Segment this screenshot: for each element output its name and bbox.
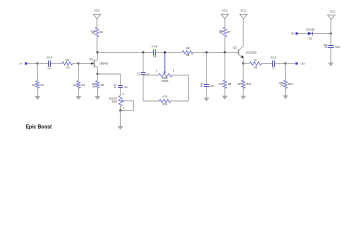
ground (C9) <box>204 98 210 102</box>
wire In to node A <box>28 63 38 65</box>
wire pot bottom to ground <box>119 111 121 127</box>
node pot-bottom junction <box>119 109 121 111</box>
svg-text:4.7: 4.7 <box>114 85 118 87</box>
resistor R10 (emitter load) <box>238 80 252 88</box>
wire node J to R9 <box>243 63 249 65</box>
svg-text:3: 3 <box>173 70 175 72</box>
svg-text:10k: 10k <box>186 46 191 50</box>
svg-text:47: 47 <box>200 84 203 86</box>
svg-text:Q2: Q2 <box>233 45 237 49</box>
svg-text:R11: R11 <box>163 102 168 106</box>
wire node D to C4 <box>98 51 155 53</box>
wire node A down to R1 <box>37 64 39 81</box>
svg-text:9V: 9V <box>291 32 294 36</box>
svg-text:5%: 5% <box>220 33 223 35</box>
node B junction <box>77 62 79 64</box>
capacitor C10 <box>323 45 340 49</box>
svg-text:R8: R8 <box>228 82 232 86</box>
svg-text:uF: uF <box>138 74 141 76</box>
wire node K to Out port <box>286 63 296 65</box>
wire R6 to Q2 base <box>193 51 239 53</box>
svg-text:C8: C8 <box>146 72 150 76</box>
wire node K down to R12 <box>285 64 287 81</box>
wire R10 to ground <box>242 88 244 96</box>
capacitor C1 <box>46 56 52 70</box>
wire loop bottom left segment <box>143 100 159 102</box>
svg-text:uF: uF <box>325 47 328 49</box>
svg-text:C9: C9 <box>210 84 214 88</box>
resistor R7 <box>219 27 231 37</box>
svg-text:8.2k: 8.2k <box>219 84 224 86</box>
svg-text:47uF: 47uF <box>271 56 277 60</box>
svg-text:4.7k: 4.7k <box>162 95 168 99</box>
svg-text:R12: R12 <box>288 82 293 86</box>
wire C8 down left loop side <box>142 75 144 101</box>
wire R8 to ground <box>224 88 226 96</box>
ground (R5) <box>95 96 101 100</box>
wire R9 to C7 <box>261 63 272 65</box>
power VCC (Q2 collector) <box>240 8 247 18</box>
wire pot wiper loop <box>123 100 133 102</box>
wire VCC to R7 <box>224 19 226 28</box>
wire pot MMR left lead <box>143 74 158 76</box>
capacitor C9 <box>200 84 214 88</box>
potentiometer MMR C500K <box>156 52 175 83</box>
svg-text:4.7nF: 4.7nF <box>151 45 158 49</box>
svg-text:nF: nF <box>200 86 203 88</box>
resistor R11 <box>159 95 170 106</box>
node F junction (gain network top) <box>142 51 144 53</box>
wire node E down to R5 <box>97 74 99 81</box>
wire loop bottom right segment <box>171 100 189 102</box>
node H junction <box>205 51 207 53</box>
svg-text:5%: 5% <box>92 33 95 35</box>
svg-text:VCC: VCC <box>94 8 100 12</box>
port Out <box>295 62 305 66</box>
svg-text:Out: Out <box>301 62 306 66</box>
resistor R4 <box>91 27 104 37</box>
svg-text:C500K: C500K <box>161 81 169 83</box>
resistor R2 <box>62 58 73 69</box>
svg-text:VCC: VCC <box>240 8 246 12</box>
svg-text:BOOST: BOOST <box>109 98 118 100</box>
svg-text:1N4148: 1N4148 <box>306 29 315 31</box>
diode D1 1N4148 <box>306 29 315 40</box>
resistor R12 (output pulldown) <box>279 80 294 88</box>
capacitor C7 <box>271 56 277 70</box>
resistor R8 <box>219 80 232 88</box>
svg-text:1k: 1k <box>254 58 257 62</box>
svg-text:3: 3 <box>122 94 124 96</box>
svg-text:100: 100 <box>323 45 328 47</box>
node L junction (VCC rail) <box>330 32 332 34</box>
transistor Q1 2N5457 JFET <box>89 52 109 74</box>
wire 9V to D1 <box>299 33 308 35</box>
svg-text:1: 1 <box>123 108 125 110</box>
svg-text:5%: 5% <box>92 86 95 88</box>
svg-text:VCC: VCC <box>330 10 336 14</box>
node J junction (Q2 emitter) <box>242 62 244 64</box>
wire R4 to drain node D <box>96 37 98 52</box>
svg-text:500K: 500K <box>112 101 118 103</box>
wire R12 to ground <box>285 88 287 95</box>
svg-text:4.7: 4.7 <box>137 72 141 74</box>
svg-text:R3: R3 <box>82 83 86 87</box>
wire R2 to node B <box>73 63 79 65</box>
svg-text:Epic Boost: Epic Boost <box>26 125 52 131</box>
ground (R8) <box>222 96 228 100</box>
wire D1 to node L <box>313 33 331 35</box>
wire node A to C1 <box>38 63 48 65</box>
wire C9 to ground <box>206 87 208 98</box>
wire C7 to node K <box>275 63 285 65</box>
svg-text:R4: R4 <box>100 30 104 34</box>
svg-text:R7: R7 <box>227 30 231 34</box>
svg-text:VCC: VCC <box>222 8 228 12</box>
port 9V <box>291 32 298 36</box>
svg-text:560: 560 <box>238 84 243 86</box>
power VCC (above R4) <box>93 8 100 18</box>
wire C1 to R2 <box>51 63 62 65</box>
capacitor C2 <box>114 85 129 89</box>
resistor R1 <box>32 81 44 89</box>
ground (R1) <box>35 96 41 100</box>
power VCC (above R7) <box>221 8 228 18</box>
node I junction (Q2 base node) <box>224 51 226 53</box>
wire node E to C2 branch <box>98 73 121 75</box>
port In <box>20 62 28 66</box>
wire node B to Q1 gate <box>79 63 92 65</box>
svg-text:5%: 5% <box>280 85 283 87</box>
node D junction (Q1 drain) <box>96 51 98 53</box>
ground (BOOST pot) <box>118 126 124 130</box>
ground (R10) <box>240 96 246 100</box>
svg-text:R2: R2 <box>66 66 70 70</box>
node G junction (pot wiper tap) <box>164 51 166 53</box>
svg-text:In: In <box>20 62 23 66</box>
wire node F down to C8 <box>142 52 144 72</box>
wire R1 to ground <box>37 88 39 96</box>
wire node B down to R3 <box>78 64 80 81</box>
svg-text:1: 1 <box>156 71 158 73</box>
svg-text:10k: 10k <box>65 58 70 62</box>
wire node I down to R8 <box>224 52 226 80</box>
wire node H down to C9 <box>206 52 208 84</box>
wire node L down to C10 <box>330 34 332 46</box>
ground (R12) <box>283 95 289 99</box>
svg-text:C2: C2 <box>124 85 128 89</box>
svg-text:R10: R10 <box>246 82 251 86</box>
svg-text:R1: R1 <box>41 83 45 87</box>
svg-text:D1: D1 <box>309 39 313 41</box>
resistor R9 <box>250 58 262 69</box>
wire node J down to R9v <box>242 64 244 81</box>
resistor R5 <box>92 81 105 89</box>
capacitor C8 <box>137 72 150 76</box>
wire C2 to pot BOOST <box>119 88 121 96</box>
svg-text:R5: R5 <box>101 83 105 87</box>
svg-text:MMR: MMR <box>162 78 168 80</box>
wire R7 to node I <box>224 37 226 52</box>
ground (C10) <box>328 63 334 67</box>
node E junction (Q1 source) <box>96 73 98 75</box>
wire C4 to R6 <box>156 51 183 53</box>
capacitor C4 <box>151 45 158 59</box>
resistor R6 <box>182 46 193 57</box>
node A junction <box>36 62 38 64</box>
svg-text:C10: C10 <box>335 45 340 49</box>
svg-text:47nF: 47nF <box>46 56 52 60</box>
wire VCC flag to node L <box>330 19 332 33</box>
svg-text:2SC1815: 2SC1815 <box>246 50 258 54</box>
wire R3 to ground <box>78 88 80 96</box>
wire R5 to ground <box>97 88 99 96</box>
wire pot bottom <box>119 106 121 110</box>
power VCC (rail flag) <box>328 10 336 20</box>
resistor R3 <box>73 81 85 89</box>
node K junction (output) <box>284 62 286 64</box>
svg-text:390: 390 <box>92 84 97 86</box>
wire VCC to R4 <box>96 19 98 28</box>
transistor Q2 2SC1815 <box>233 19 257 64</box>
svg-text:Q1: Q1 <box>89 57 93 61</box>
wire pot right lead down <box>172 74 188 76</box>
ground (R3) <box>76 96 82 100</box>
wire C10 to ground <box>330 48 332 63</box>
svg-text:uF: uF <box>114 87 117 89</box>
svg-text:2N5457: 2N5457 <box>99 61 109 65</box>
potentiometer BOOST 500K <box>109 94 125 110</box>
svg-text:R9: R9 <box>254 66 258 70</box>
